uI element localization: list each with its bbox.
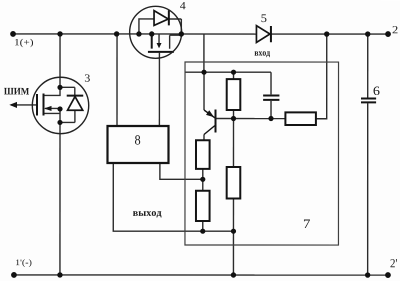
transistor Q collector slant: [204, 126, 215, 135]
resistor R-mid: [227, 167, 241, 199]
transistor 3 channel bar: [43, 93, 45, 115]
wire transistor 3 body lead: [45, 107, 60, 109]
node divider mid: [200, 177, 205, 182]
terminal node 2: [385, 31, 391, 37]
node rail/C6: [365, 31, 370, 36]
node rail/R-horiz: [324, 31, 329, 36]
body diode 3 triangle: [68, 97, 83, 111]
wire body diode 4 cathode link: [169, 19, 181, 34]
label вход: [255, 51, 271, 57]
resistor R-left-lower: [196, 191, 210, 221]
node вход wire right: [231, 70, 236, 75]
node VT3 source: [57, 120, 62, 125]
wire transistor 3 drain lead: [44, 87, 61, 95]
node VT3 body: [57, 106, 62, 111]
wire body diode 3 anode link: [60, 110, 75, 122]
wire rail to capacitor 6: [367, 34, 369, 97]
body diode 4 triangle: [154, 11, 168, 26]
arrowhead transistor 3 body: [44, 106, 52, 111]
wire capacitor 6 to bottom rail: [367, 103, 369, 275]
wire top rail left segment (1+ to diode 5): [13, 33, 256, 35]
node VT3 drain: [57, 85, 62, 90]
node VT4 right: [179, 31, 184, 36]
terminal node 2': [385, 272, 391, 278]
label 7: [304, 220, 310, 229]
node divider bottom: [200, 229, 205, 234]
label ШИМ: [4, 88, 29, 95]
wire transistor 3 source lead: [44, 112, 61, 114]
wire transistor emitter lead: [203, 72, 205, 110]
wire transistor base to resistor row: [217, 118, 286, 120]
wire resistor column top stub: [233, 72, 235, 79]
terminal node 1'(-): [11, 272, 17, 278]
node base row left: [231, 116, 236, 121]
arrowhead transistor 4 down: [157, 43, 162, 48]
label 3: [85, 74, 90, 81]
label 6: [374, 87, 380, 96]
node rail/block8: [114, 31, 119, 36]
transistor 3 gate bar: [36, 94, 38, 116]
wire capacitor top lead: [270, 72, 272, 94]
label 8: [135, 135, 140, 144]
wire block 7 internal top: [185, 71, 271, 73]
wire выход from block 8: [113, 163, 233, 231]
transistor 3 circle: [32, 77, 88, 133]
block 8: [107, 126, 168, 163]
node вход wire left: [201, 70, 206, 75]
wire between left resistors: [202, 169, 204, 191]
wire resistor R-mid bottom lead: [232, 199, 234, 232]
wire transistor collector stub: [203, 135, 205, 141]
terminal node 1(+): [10, 31, 16, 37]
transistor Q emitter slant: [204, 110, 215, 118]
body diode 3 cathode bar: [67, 95, 84, 97]
label 2': [390, 259, 397, 267]
wire resistor R-top bottom lead: [232, 110, 234, 167]
wire transistor 4 arrow stem: [158, 34, 160, 44]
arrowhead ШИМ: [9, 102, 17, 108]
wire transistor 4 gate to block 8: [158, 53, 160, 126]
body diode 4 cathode bar: [168, 10, 170, 25]
resistor R-top: [227, 79, 241, 110]
label 1'(-): [16, 259, 32, 267]
capacitor 6 plates: [361, 99, 376, 103]
label выход: [133, 211, 162, 217]
node bottom C6: [365, 272, 370, 277]
wire body diode 4 anode link: [139, 19, 154, 34]
node bottom block7: [231, 272, 236, 277]
wire node to bottom rail: [232, 231, 234, 275]
transistor 4 circle: [130, 6, 182, 58]
node rail/VT3: [57, 31, 62, 36]
diode 5 triangle: [256, 26, 270, 43]
transistor 4 gate plate: [148, 51, 174, 53]
wire transistor 4 right stub: [170, 35, 182, 49]
diode 5 cathode bar: [270, 26, 272, 42]
wire block 8 to divider midpoint: [160, 163, 203, 179]
wire transistor 3 source down to bottom rail: [59, 109, 61, 275]
label 4: [180, 2, 186, 9]
wire ШИМ gate lead: [11, 104, 37, 106]
capacitor C plates: [263, 96, 279, 100]
wire bottom rail: [14, 274, 388, 276]
label 5: [261, 14, 266, 22]
label 1(+): [15, 39, 33, 48]
label 2: [393, 26, 398, 33]
node bottom VT3: [57, 272, 62, 277]
resistor R-left-upper: [196, 140, 210, 169]
node base row cap: [268, 116, 273, 121]
transistor Q base bar: [215, 110, 217, 133]
transistor 4 source stub: [151, 34, 153, 49]
wire rail to transistor 3 drain: [59, 34, 61, 87]
wire left resistor chain bottom stub: [202, 221, 204, 231]
wire rail to block 8 top-left: [116, 34, 118, 126]
resistor R-horizontal: [285, 112, 316, 125]
node VT4 source: [149, 31, 154, 36]
node выход wire right: [231, 229, 236, 234]
wire capacitor bottom lead: [270, 101, 272, 119]
wire body diode 3 cathode link: [60, 87, 75, 95]
arrowhead transistor Q emitter: [206, 110, 214, 117]
wire rail down to resistor R-horizontal: [316, 34, 327, 119]
block 7 boundary: [185, 62, 339, 245]
node VT4 left: [136, 31, 141, 36]
wire rail to node in block 7 (вход drop): [203, 34, 205, 72]
wire top rail right segment (diode 5 to terminal 2): [272, 33, 389, 35]
